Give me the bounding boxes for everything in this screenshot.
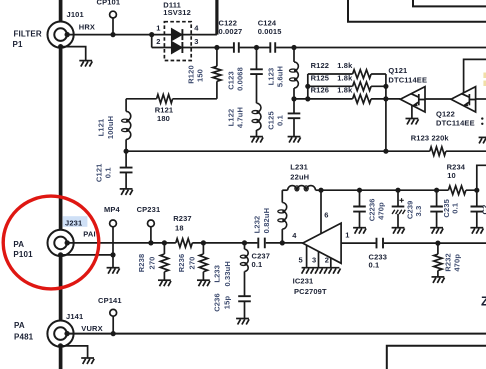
wire pin3 row mid (C122 to C124): [240, 47, 270, 49]
svg-text:2: 2: [156, 37, 160, 46]
connector J101: [48, 21, 74, 47]
resistor R122: [353, 70, 372, 79]
resistor R236 (vertical): [199, 243, 207, 280]
node CP141 junction: [111, 331, 116, 336]
ground C125: [288, 137, 301, 143]
svg-text:0.1: 0.1: [276, 115, 285, 126]
frame box top right inner: [413, 0, 486, 6]
inductor L232 (vertical): [278, 190, 287, 243]
wire VURX row: [67, 333, 486, 335]
svg-text:3: 3: [194, 37, 198, 46]
svg-text:1.8k: 1.8k: [337, 61, 353, 70]
wire left bus of R122/R125/R126: [307, 74, 309, 99]
node faint highlight marks right edge: [483, 73, 486, 87]
svg-text:Q121: Q121: [388, 66, 407, 75]
node R234 right: [474, 188, 479, 193]
wire Q121 out to Q122: [425, 98, 451, 100]
highlight box J231: [63, 216, 88, 227]
test point CP101: [110, 11, 117, 34]
ground Q121: [406, 119, 419, 125]
capacitor C236: [238, 296, 251, 318]
wire row R122: [308, 73, 386, 75]
svg-text:15p: 15p: [223, 296, 232, 310]
wire IC231 pin3: [318, 251, 320, 267]
node J141 shield: [58, 343, 63, 348]
node J231 shield left: [58, 252, 63, 257]
node J231 shield right: [110, 252, 115, 257]
node R236 top: [201, 240, 206, 245]
svg-text:R122: R122: [311, 61, 330, 70]
svg-text:Z: Z: [481, 295, 486, 309]
svg-text:R238: R238: [137, 254, 146, 273]
node C2236 top: [357, 188, 362, 193]
svg-text:C123: C123: [227, 71, 236, 90]
svg-text:0.33uH: 0.33uH: [223, 261, 232, 287]
ground R232: [432, 277, 445, 283]
node left bus R125: [305, 84, 310, 89]
resistor R126: [353, 95, 372, 104]
resistor R232 (vertical): [434, 243, 442, 276]
svg-text:L121: L121: [97, 119, 106, 137]
resistor R238 (vertical): [160, 243, 168, 280]
capacitor C125: [288, 99, 301, 136]
wire main RX row mid: [192, 242, 257, 244]
svg-text:470p: 470p: [376, 202, 385, 220]
svg-text:150: 150: [195, 69, 204, 82]
node L123 bottom: [291, 96, 296, 101]
capacitor C121: [120, 151, 133, 189]
svg-text:HRX: HRX: [79, 22, 95, 31]
svg-text:DTC114EE: DTC114EE: [388, 75, 427, 84]
frame box bottom right: [387, 346, 486, 369]
node R232 top: [435, 241, 440, 246]
diode D111b: [172, 42, 183, 53]
svg-text:C2236: C2236: [367, 198, 376, 221]
ground C236: [236, 319, 249, 325]
svg-text:MP4: MP4: [104, 205, 121, 214]
svg-text:PC2709T: PC2709T: [294, 287, 327, 296]
node J101 shield: [58, 44, 63, 49]
node C239 top: [395, 188, 400, 193]
ground C235: [430, 228, 443, 234]
frame box top right outer: [348, 0, 486, 22]
wire long mid row y151: [126, 150, 486, 152]
svg-text:0.1: 0.1: [369, 261, 380, 270]
wire J231 shield: [61, 254, 113, 256]
svg-text:C122: C122: [219, 18, 238, 27]
wire to IC231 pin4: [266, 242, 303, 244]
node CP231 junction: [148, 240, 153, 245]
ground C121: [120, 189, 133, 195]
test point CP231: [148, 220, 155, 243]
svg-text:R236: R236: [177, 254, 186, 273]
svg-text:IC231: IC231: [293, 277, 314, 286]
svg-text:270: 270: [188, 257, 197, 270]
svg-text:3: 3: [312, 255, 316, 264]
svg-text:CP231: CP231: [137, 205, 161, 214]
svg-text:2: 2: [325, 255, 329, 264]
node right bus R125: [383, 84, 388, 89]
svg-text:0.0068: 0.0068: [236, 67, 245, 91]
node R123 left: [383, 149, 388, 154]
resistor R121 (horizontal): [126, 95, 217, 104]
wire IC231 pin6 drop: [320, 190, 322, 233]
svg-text:1: 1: [345, 231, 349, 240]
resistor R125: [353, 82, 372, 91]
transistor Q121: [400, 87, 425, 112]
node L123 top: [291, 45, 296, 50]
svg-text:Q122: Q122: [436, 109, 455, 118]
svg-text:0.0027: 0.0027: [219, 27, 243, 36]
resistor R237: [176, 239, 192, 248]
capacitor C233: [377, 238, 384, 249]
wire Q122 out right: [476, 98, 486, 100]
svg-text:6: 6: [324, 211, 328, 220]
svg-text:R125: R125: [311, 73, 330, 82]
ground C2236: [353, 228, 366, 234]
op-amp IC231: [303, 223, 341, 263]
svg-text:270: 270: [148, 257, 157, 270]
ground C239: [392, 228, 405, 234]
wire J141 shield: [61, 346, 88, 358]
svg-text:J231: J231: [65, 218, 82, 227]
svg-text:PA: PA: [14, 321, 25, 330]
node L233 top: [242, 240, 247, 245]
diode pack D111 dashed box: [164, 22, 191, 61]
resistor R123: [430, 147, 446, 156]
wire thick vertical bus left: [59, 0, 63, 369]
svg-text:FILTER: FILTER: [14, 30, 42, 39]
test point CP141: [110, 309, 117, 333]
wire IC231 pin2: [330, 258, 332, 268]
ground R238: [158, 280, 171, 286]
ground MP4 / J231 shield: [107, 268, 120, 274]
svg-text:R120: R120: [186, 65, 195, 84]
wire Q122 collector up and right: [464, 59, 486, 92]
wire row R125: [308, 85, 386, 87]
inductor L121: [122, 99, 131, 151]
wire Q121 emitter to ground: [411, 106, 413, 119]
wire pin3 row right: [276, 47, 486, 49]
wire D111 pin2 drop: [151, 35, 153, 48]
svg-text:18: 18: [175, 223, 184, 232]
wire IC231 pin1 row: [341, 242, 486, 244]
svg-text:C2: C2: [480, 205, 486, 215]
inductor L231 (horizontal): [282, 186, 322, 191]
resistor R120 (vertical): [213, 48, 221, 99]
svg-text:L123: L123: [266, 68, 275, 86]
svg-text:VURX: VURX: [81, 324, 102, 333]
svg-text:C121: C121: [94, 164, 103, 183]
svg-text:0.1: 0.1: [104, 167, 113, 178]
capacitor C123 (vertical): [250, 48, 263, 104]
wire main RX row left: [67, 242, 176, 244]
svg-text:10: 10: [447, 171, 456, 180]
node CP101 junction: [110, 32, 115, 37]
svg-text:0.1: 0.1: [451, 203, 460, 214]
connector J231: [48, 230, 74, 256]
svg-text:0.1: 0.1: [252, 260, 263, 269]
svg-text:P481: P481: [14, 333, 34, 342]
transistor Q122: [451, 87, 476, 112]
svg-text:C236: C236: [213, 293, 222, 312]
wire pin3 row left: [152, 47, 234, 49]
svg-text:L122: L122: [227, 109, 236, 127]
svg-text:CP101: CP101: [97, 0, 121, 7]
wire HRX row: [67, 34, 217, 36]
ground L122: [250, 137, 263, 143]
svg-text:4: 4: [292, 231, 297, 240]
node C123 top: [254, 45, 259, 50]
ground IC231 pins: [302, 268, 341, 274]
connector J141: [47, 321, 73, 347]
svg-text:1: 1: [156, 24, 160, 33]
svg-text:0.82uH: 0.82uH: [262, 208, 271, 234]
svg-text:L232: L232: [253, 216, 262, 234]
svg-text:CP141: CP141: [98, 296, 122, 305]
capacitor at right edge below R234: [471, 190, 484, 227]
svg-text:1SV312: 1SV312: [163, 8, 191, 17]
wire row R126 to Q121: [294, 98, 400, 100]
svg-text:PA: PA: [13, 240, 24, 249]
svg-text:R123 220k: R123 220k: [411, 134, 450, 143]
svg-text:22uH: 22uH: [290, 172, 309, 181]
capacitor C2236: [353, 190, 366, 227]
node colon marks right edge: [481, 117, 483, 125]
svg-text:C125: C125: [266, 111, 275, 130]
svg-text:3.3: 3.3: [414, 206, 423, 217]
ground R236: [197, 280, 210, 286]
node left bus R126: [305, 96, 310, 101]
inductor L233 (vertical): [240, 243, 248, 296]
capacitor C122: [234, 42, 239, 53]
ground clipped at right edge near R123: [479, 137, 486, 143]
svg-text:L233: L233: [213, 265, 222, 283]
node L231 right pin6: [318, 188, 323, 193]
svg-text:DTC114EE: DTC114EE: [436, 119, 475, 128]
svg-text:180: 180: [157, 114, 170, 123]
capacitor C235: [430, 190, 443, 227]
wire R234 right up to edge: [477, 165, 486, 190]
svg-text:R126: R126: [311, 86, 330, 95]
node R238 top: [162, 240, 167, 245]
svg-text:J101: J101: [67, 10, 84, 19]
svg-text:R237: R237: [173, 214, 192, 223]
svg-text:470p: 470p: [452, 254, 461, 272]
node C235 top: [434, 188, 439, 193]
svg-text:P1: P1: [13, 40, 23, 49]
capacitor C239 (electrolytic): [392, 190, 406, 227]
wire IC231 pin5: [306, 245, 308, 267]
node L121 C121: [124, 149, 129, 154]
svg-text:P101: P101: [13, 250, 33, 259]
diode D111a: [172, 29, 183, 40]
svg-text:4: 4: [194, 24, 199, 33]
inductor L123: [290, 48, 299, 99]
wire row y190 to R234: [322, 189, 477, 191]
svg-text:1.8k: 1.8k: [337, 86, 353, 95]
wire right bus of R122/R125/R126 down to R123: [385, 74, 387, 151]
ground J101: [79, 61, 92, 67]
ground right edge capacitor: [470, 228, 483, 234]
capacitor C237: [258, 238, 265, 249]
svg-text:100uH: 100uH: [106, 116, 115, 139]
svg-text:4.7uH: 4.7uH: [236, 107, 245, 128]
wire thick vertical stub top (to D111 pin4 row): [215, 0, 218, 35]
svg-text:1.8k: 1.8k: [337, 73, 353, 82]
node R120 top: [214, 45, 219, 50]
test point MP4: [110, 220, 117, 267]
svg-text:PAI: PAI: [83, 230, 95, 239]
svg-text:0.0015: 0.0015: [258, 27, 282, 36]
svg-text:5: 5: [299, 255, 303, 264]
red circle highlight: [3, 196, 99, 289]
ground J141: [81, 358, 94, 364]
wire J101 shield: [61, 47, 86, 61]
node right bus R126: [383, 96, 388, 101]
svg-text:L231: L231: [290, 163, 308, 172]
svg-text:C124: C124: [258, 18, 277, 27]
node L232 bottom: [280, 240, 285, 245]
resistor R234: [448, 186, 465, 195]
svg-text:5.6uH: 5.6uH: [276, 66, 285, 87]
svg-text:J141: J141: [66, 312, 83, 321]
node D111 input junction: [149, 32, 154, 37]
capacitor C124: [270, 42, 275, 53]
inductor L122: [252, 103, 261, 136]
